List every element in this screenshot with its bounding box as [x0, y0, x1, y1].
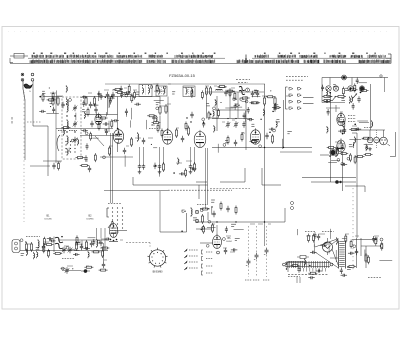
resistor R38	[76, 157, 85, 159]
wiring cluster zone 7	[327, 103, 373, 162]
wire switch out y103	[303, 103, 314, 105]
legend bracket M1	[202, 250, 213, 254]
wire vertical x117.5	[117, 97, 119, 129]
wire mains pair	[297, 277, 300, 283]
svg-text:B8 EM80: B8 EM80	[153, 271, 164, 274]
svg-text:UCC85: UCC85	[44, 219, 52, 221]
wire y155 left	[320, 154, 329, 156]
aerial terminal A1	[21, 73, 24, 76]
oscillator coil S1	[239, 87, 245, 95]
wire transformer diag 1	[332, 249, 339, 266]
output terminal circle 2	[380, 245, 383, 248]
wire AF bus y222	[196, 221, 285, 222]
padder capacitor C36	[81, 269, 90, 273]
switch contact SA4	[289, 107, 293, 110]
capacitor C40	[297, 266, 300, 273]
wire manhattan x262	[261, 168, 263, 185]
wire transformer diag 3	[315, 239, 339, 269]
capacitor C1	[61, 102, 64, 109]
capacitor C9	[142, 138, 145, 145]
tube V4 mixer-oscillator	[250, 128, 260, 144]
gramophone connector	[12, 240, 20, 253]
aerial terminal A2	[31, 73, 34, 76]
wire vertical x110.5	[110, 133, 112, 203]
wire dashed vertical x256.5	[256, 226, 258, 277]
dial scale lower tick group 3	[147, 60, 165, 64]
ground G2	[158, 170, 162, 174]
wire vertical x264.5	[264, 84, 266, 148]
switch contact SB3	[298, 101, 302, 104]
dial scale upper tick group 9	[278, 55, 295, 58]
dial lamp LP1	[342, 75, 347, 80]
IF transformer T3	[183, 86, 195, 97]
thermistor blob	[359, 86, 364, 91]
voltage selector labels	[288, 274, 327, 276]
coil L8	[216, 89, 223, 90]
dial scale lower tick group 5	[237, 60, 299, 64]
mains input dots	[286, 263, 287, 269]
switch contact SD1	[233, 98, 237, 101]
component labels	[197, 205, 209, 209]
resistor R26	[80, 165, 90, 167]
wire transformer diag 2	[332, 239, 339, 244]
legend bracket M2	[202, 257, 213, 261]
wire bus y92 converter	[205, 91, 264, 93]
tube V5 detector-AF	[337, 112, 345, 126]
wire long vertical x357	[352, 133, 357, 238]
wire vertical x342.5	[342, 152, 344, 191]
switch contact SD2	[240, 98, 244, 101]
capacitor C39	[355, 249, 358, 256]
wiring cluster zone 16	[39, 87, 56, 103]
dial scale upper tick group 3	[67, 55, 96, 58]
dial scale upper tick group 1	[32, 55, 43, 58]
ground G1	[138, 170, 142, 174]
capacitor C8	[123, 148, 126, 155]
resistor R25	[58, 162, 60, 171]
resistor R9	[159, 105, 161, 115]
resistor R29	[30, 242, 32, 252]
wire vertical x285 riser	[284, 208, 286, 222]
electrolytic label 2	[253, 279, 259, 281]
dial scale lower tick group 1	[30, 60, 69, 64]
core circle pair	[291, 202, 294, 210]
resistor R11b	[157, 124, 159, 133]
wiring cluster zone 11	[347, 236, 392, 267]
resistor R10	[165, 104, 167, 114]
wire transformer left	[330, 257, 339, 259]
pilot lamp LP2	[326, 86, 331, 91]
resistor R44	[98, 122, 100, 131]
wire y166 left	[30, 165, 50, 167]
switch table bracket	[286, 87, 288, 109]
capacitor C10	[152, 115, 155, 122]
tuner section labels	[58, 130, 77, 132]
capacitor C26	[52, 163, 55, 170]
resistor R36	[365, 253, 367, 263]
wire vertical x336 upper	[335, 105, 337, 112]
wire vertical x264.5 bottom	[264, 230, 266, 246]
resistor R28	[25, 242, 27, 252]
capacitor C42	[226, 206, 229, 213]
capacitor C15	[273, 105, 276, 112]
resistor R13	[205, 86, 207, 96]
capacitor C27	[88, 166, 91, 173]
legend arrow L2	[184, 255, 198, 258]
capacitor C34	[102, 262, 105, 269]
resistor R39	[201, 208, 210, 210]
wire horizontal y115	[95, 114, 118, 116]
trimmer capacitor C29	[62, 247, 67, 254]
wire x322 drop	[321, 78, 323, 103]
wire y161	[43, 160, 62, 162]
legend bracket M3	[202, 264, 213, 268]
wire S2 bottom	[110, 230, 127, 232]
resistor R19	[322, 100, 332, 102]
dial pointer mark	[245, 55, 247, 64]
capacitor C24	[158, 163, 161, 170]
resistor R41	[235, 206, 237, 215]
wire right angle y186	[345, 186, 365, 192]
svg-text:UCH81: UCH81	[86, 219, 94, 221]
wire y246 link	[361, 245, 380, 247]
electrolytic capacitor CE1	[246, 259, 251, 266]
IF transformer T1	[139, 85, 152, 97]
electrolytic capacitor CE3	[264, 248, 269, 255]
coil L6	[124, 94, 131, 95]
DIN socket J3	[380, 130, 388, 145]
wire bus y185	[133, 177, 208, 185]
capacitor C18	[242, 121, 245, 128]
wiring cluster zone 8	[20, 235, 111, 259]
coil L2	[67, 103, 68, 113]
trimmer capacitor C35	[65, 267, 70, 274]
capacitor C6	[106, 92, 109, 99]
ferrite rod aerial	[54, 237, 63, 253]
dial scale frequency numbers	[33, 53, 376, 54]
bus label dashes y190	[168, 189, 232, 191]
wire y102 link	[322, 102, 345, 104]
capacitor C28	[42, 244, 45, 251]
capacitor C13	[251, 91, 254, 98]
dial scale lower tick group 4	[172, 60, 215, 64]
wiring cluster zone 14	[181, 200, 215, 232]
resistor R18	[322, 96, 332, 98]
wire vertical pair x205.5	[205, 148, 207, 209]
dial scale lower tick group 8	[359, 60, 390, 64]
trimmer capacitor C30	[68, 247, 73, 254]
legend arrow L1	[184, 249, 198, 252]
wire vertical x368.5	[384, 78, 386, 93]
tube V7 AM amplifier	[109, 222, 117, 238]
capacitor C7	[111, 92, 114, 99]
wire manhattan dashes y188	[210, 188, 250, 190]
capacitor C21	[343, 127, 346, 134]
dial scale upper tick group 12	[351, 55, 362, 58]
capacitor C32	[90, 241, 93, 248]
trimmer capacitor C17	[234, 121, 239, 128]
capacitor C22	[138, 163, 141, 170]
dial scale upper tick group 7	[175, 55, 213, 58]
wire vertical x330.5	[330, 92, 332, 182]
trimmer capacitor C2	[73, 105, 78, 112]
dial scale lower tick group 6	[304, 60, 319, 64]
tube V6 AF amplifier	[337, 138, 345, 152]
dial scale box feed line	[10, 55, 28, 57]
dial scale lower tick group 2	[70, 60, 142, 64]
switch contact SB4	[298, 107, 302, 110]
switch contact SD3	[236, 104, 240, 107]
resistor R4	[93, 96, 95, 106]
switch S2 bracket	[107, 208, 109, 217]
capacitor C20	[357, 96, 360, 103]
switch contact SA3	[289, 101, 293, 104]
capacitor C19	[265, 133, 268, 140]
wire output top y239.5	[352, 239, 377, 241]
switch S2 wiper arrow	[108, 221, 113, 228]
wire vertical pair x207.5	[207, 148, 209, 205]
coil L9	[191, 207, 192, 217]
wire aerial down-lead	[23, 81, 25, 161]
resistor R30	[45, 244, 54, 246]
capacitor C43	[94, 107, 97, 114]
switch contact SC1	[182, 210, 186, 213]
resistor R5	[116, 92, 125, 94]
small labels AM chain	[26, 237, 74, 259]
wire y108 link	[326, 107, 340, 109]
resistor R32	[85, 240, 87, 250]
wire vertical x190-194	[191, 147, 195, 164]
rectifier valve V9	[323, 238, 333, 255]
V8 cathode terminal	[217, 251, 220, 254]
dial scale upper tick group 2	[46, 55, 63, 58]
wire AM rail y240	[58, 239, 108, 241]
dial scale upper tick group 10	[300, 55, 317, 58]
capacitor C11b	[234, 140, 237, 147]
wire anode bus y96	[82, 96, 160, 98]
tube V1 FM oscillator	[95, 113, 102, 125]
resistor R11	[175, 128, 177, 138]
wire vertical x160-163	[160, 147, 164, 164]
switch contact SB2	[298, 94, 302, 97]
tube V10 label	[368, 277, 381, 279]
wire switch out y97	[303, 97, 314, 99]
IF transformer T2	[156, 86, 167, 96]
wire bus y190.5	[104, 190, 168, 192]
wire vertical x283.5	[283, 100, 285, 148]
wiring cluster zone 3	[109, 84, 203, 109]
wire vertical x264.5 lower	[264, 148, 266, 230]
resistor R24	[193, 162, 195, 172]
dial scale upper tick group 4	[99, 55, 113, 58]
valve socket label	[153, 271, 164, 274]
resistor R37	[291, 265, 300, 267]
switch contact SA1	[289, 88, 293, 91]
resistor R43	[99, 117, 108, 119]
capacitor C38	[317, 234, 320, 241]
tube V2 FM RF amplifier	[113, 128, 123, 143]
wiring cluster zone 15	[327, 143, 356, 166]
dial scale lower tick group 7	[324, 60, 346, 64]
wire vertical x160 lower	[159, 191, 161, 232]
wire vertical x361	[360, 238, 362, 256]
voltage selector lower pins	[301, 268, 326, 272]
svg-text:EL84: EL84	[226, 241, 232, 243]
wire y271	[62, 270, 81, 272]
aerial input coil L1	[24, 84, 32, 93]
switch S2 caption	[108, 203, 122, 205]
wiring cluster zone 2	[39, 92, 59, 114]
mains transformer TR1	[339, 241, 346, 269]
wiring cluster zone 4	[202, 85, 281, 128]
wire vertical x56	[55, 97, 57, 162]
wire vertical x370.5	[370, 84, 372, 130]
capacitor C33	[99, 240, 102, 247]
wire top bus y84	[105, 83, 265, 85]
tube V3 IF amplifier 1	[162, 128, 172, 144]
wire vertical x105	[104, 228, 106, 251]
dial scale upper tick group 11	[330, 55, 346, 58]
resistor R22	[356, 156, 365, 158]
resistor R12c	[241, 133, 243, 142]
wire vertical x356.5	[356, 238, 358, 268]
wire dashed x353	[352, 188, 354, 270]
wire manhattan x199	[198, 185, 200, 199]
wire dashed vertical x248.5	[248, 226, 250, 277]
arrow mark 2	[353, 94, 357, 99]
wire dashed x24	[23, 92, 25, 222]
FM tuner unit box	[62, 97, 81, 159]
resistor R7	[108, 146, 110, 156]
wire AF bus y182	[311, 181, 356, 183]
capacitor C25	[189, 163, 192, 170]
wire dashed y242	[126, 242, 150, 244]
tube V3b IF amplifier 2	[194, 130, 206, 148]
wire y110 link	[215, 109, 245, 111]
power label dashes	[305, 231, 334, 233]
resistor R6	[134, 91, 136, 100]
wire vertical x160	[159, 97, 161, 130]
padder core circle	[246, 88, 250, 92]
wire manhattan x245	[244, 168, 246, 182]
resistor R2	[57, 96, 59, 106]
legend bracket M4	[202, 271, 213, 275]
tuner box left curve	[57, 135, 60, 151]
capacitor C41	[84, 155, 87, 162]
wire y232 link	[160, 213, 187, 232]
capacitor C11	[181, 136, 184, 143]
coil L5	[67, 148, 68, 155]
pickup socket J2	[374, 130, 380, 148]
switch contact SA2	[289, 94, 293, 97]
resistor R21	[349, 129, 359, 131]
wire manhattan y185	[262, 184, 281, 186]
electrolytic label 1	[245, 279, 251, 281]
wire vertical x238	[237, 92, 239, 118]
capacitor C23	[142, 163, 145, 170]
wire FM input top	[43, 96, 62, 98]
core adjust circle 2	[195, 219, 198, 222]
voltage selector end circle 1	[283, 263, 286, 266]
tuner switch dot grid	[65, 141, 75, 153]
resistor R31	[75, 241, 77, 251]
tube V8 labels	[226, 237, 232, 243]
resistor R15	[263, 96, 265, 106]
wiring cluster zone 9	[60, 266, 107, 272]
legend arrow L3	[184, 261, 198, 264]
wire grid cluster	[185, 112, 194, 131]
resistor R3	[85, 96, 87, 106]
junction dots in tuner	[66, 115, 75, 132]
dial scale upper rail	[28, 57, 390, 59]
capacitor C31	[80, 244, 83, 251]
wire V8 input	[200, 242, 213, 244]
oscillator section label	[236, 80, 250, 83]
capacitor C5	[89, 102, 92, 109]
dial scale upper tick group 6	[149, 55, 163, 58]
wire vertical x366	[365, 246, 367, 268]
capacitor C44	[90, 121, 93, 128]
trimmer capacitor C3	[73, 121, 78, 128]
coil L3	[67, 119, 68, 129]
pilot lamp LP3	[333, 86, 338, 91]
capacitor C45	[103, 122, 110, 125]
resistor R20	[336, 96, 346, 98]
rotated margin label	[11, 117, 13, 124]
resistor R12	[187, 126, 189, 136]
mains label dashes	[288, 276, 300, 278]
lamp bus end circle	[380, 75, 382, 77]
resistor R8	[130, 137, 132, 147]
resistor R16	[274, 96, 276, 106]
wire output bus y130	[352, 128, 385, 131]
resistor R40	[220, 202, 222, 211]
wire vertical x96	[96, 228, 98, 238]
switch table caption	[286, 77, 308, 81]
tube V3 label	[149, 124, 158, 129]
wire vertical x230	[229, 92, 231, 118]
wire lamp drop x330	[329, 78, 331, 86]
wire y135.5 link	[80, 135, 118, 137]
resistor R27	[201, 214, 203, 224]
wire screen bus y103	[167, 97, 169, 131]
dial scale upper tick group 13	[368, 55, 385, 58]
wire dashed vertical x266.5	[266, 226, 268, 277]
wire vertical x107	[107, 98, 109, 115]
valve label B1	[44, 215, 52, 221]
wire lamp drop x352	[351, 78, 353, 86]
output terminal arrow	[375, 237, 377, 242]
switch contact SB1	[298, 88, 302, 91]
wire vertical x141 pair	[140, 147, 144, 163]
electrolytic capacitor CE2	[254, 253, 259, 260]
wire bus y118.5	[212, 118, 252, 119]
wire y157 link	[100, 156, 133, 158]
wire y128 link	[56, 128, 113, 130]
wire manhattan y182b	[220, 181, 245, 183]
socket tail mark	[388, 144, 391, 146]
voltage selector strip	[285, 261, 330, 268]
coil L7	[138, 132, 139, 142]
capacitor C37	[224, 248, 227, 255]
legend arrow L4	[184, 267, 198, 270]
tube V8 output pentode	[213, 234, 222, 249]
valve label B2	[86, 215, 94, 221]
trimmer capacitor C16	[226, 121, 231, 128]
aerial terminal A3	[21, 79, 24, 82]
pickup socket J1	[367, 130, 373, 151]
dial scale upper tick group 8	[255, 55, 268, 58]
